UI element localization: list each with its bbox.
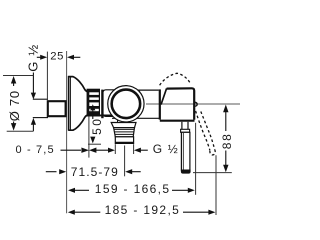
svg-text:½: ½ <box>168 142 178 156</box>
grip neck <box>181 122 183 130</box>
axis centerline <box>146 103 240 105</box>
union nut <box>87 89 99 116</box>
body top edge <box>137 89 159 91</box>
cartridge housing <box>103 90 140 117</box>
bonnet edge <box>101 90 103 119</box>
outlet collar <box>111 123 136 128</box>
grip end cap <box>181 170 191 174</box>
lever set screw bump <box>195 102 198 106</box>
dim 185-192,5 <box>68 210 75 215</box>
dashed lever raised outline top <box>160 73 190 85</box>
wire wall reference line <box>66 51 68 213</box>
grip ring <box>181 129 190 132</box>
grip body <box>181 132 190 170</box>
dim 71.5-79 <box>46 171 57 173</box>
dim dia70 line + arrows <box>11 76 16 84</box>
dim 25 arrows <box>37 56 41 58</box>
svg-text:71.5-79: 71.5-79 <box>71 165 119 179</box>
svg-text:0 - 7,5: 0 - 7,5 <box>16 144 55 156</box>
svg-text:50: 50 <box>90 117 104 135</box>
pipe nipple <box>48 101 66 116</box>
dim 50 bottom ext <box>88 143 101 145</box>
dome outer circle <box>108 86 144 122</box>
svg-text:G: G <box>153 142 162 156</box>
outlet centerline ext <box>124 146 126 177</box>
outlet neck ticks <box>117 120 119 123</box>
dim 159-166,5 <box>68 188 75 193</box>
svg-text:88: 88 <box>220 132 234 149</box>
lever junction <box>159 89 161 119</box>
dome bold circle <box>112 90 140 119</box>
dim 25: left ext line <box>46 52 48 100</box>
lever wedge slant <box>161 88 167 104</box>
supply pipe <box>33 98 48 100</box>
dashed raised grip outer <box>201 112 215 150</box>
svg-text:G ½: G ½ <box>26 44 41 72</box>
outlet tip <box>115 137 133 144</box>
body bottom edge <box>112 117 160 119</box>
dim 88 <box>223 105 228 113</box>
svg-text:185 - 192,5: 185 - 192,5 <box>105 203 181 217</box>
lever bottom edge <box>160 120 195 122</box>
escutcheon <box>68 76 88 131</box>
svg-text:Ø 70: Ø 70 <box>7 90 22 121</box>
dashed raised grip inner <box>196 111 210 150</box>
outlet thread <box>114 128 135 137</box>
nut bottom edge extended <box>87 114 112 116</box>
svg-text:159 - 166,5: 159 - 166,5 <box>95 182 171 196</box>
dashed raised grip end loop <box>210 150 215 155</box>
dim dia70 ext lines <box>3 75 33 77</box>
svg-text:25: 25 <box>50 50 64 62</box>
dim 50 line + arrows <box>90 104 95 110</box>
dim G1/2 outlet arrows <box>108 148 115 153</box>
dim 0-7,5 leader + bowtie arrows <box>61 149 82 151</box>
dim G1/2 leader line + arrows <box>32 73 34 94</box>
lever body <box>167 88 195 120</box>
